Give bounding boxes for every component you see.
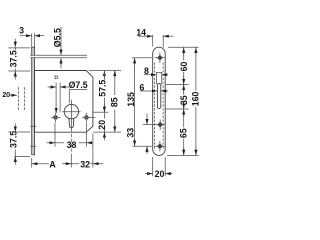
svg-text:33: 33 — [126, 128, 136, 138]
dim 135 — [134, 58, 136, 147]
dim 37.5 lower — [14, 150, 16, 157]
plate screw hole top — [155, 53, 165, 63]
faceplate side-view bar — [32, 47, 35, 155]
plate screw hole middle — [155, 119, 165, 129]
svg-text:Ø5.5: Ø5.5 — [52, 28, 62, 47]
cylinder centerline below body — [70, 134, 72, 152]
dim 3 extension lines — [31, 33, 33, 47]
svg-text:3: 3 — [19, 25, 24, 35]
ext line body top right — [89, 69, 121, 71]
dim 160 — [195, 47, 197, 91]
dim 33 — [146, 114, 148, 125]
svg-text:20: 20 — [155, 169, 165, 179]
ext slot top right — [166, 84, 189, 86]
dim 85 line — [114, 70, 116, 95]
countersunk hole top — [54, 75, 59, 80]
dim 38 ext lines — [54, 123, 56, 147]
dim 14 ext lines — [152, 35, 154, 47]
ext line body bottom right — [93, 131, 121, 133]
hole tick mid-lower on bar — [30, 125, 36, 127]
cylinder h centerline — [62, 111, 80, 113]
svg-text:135: 135 — [126, 92, 136, 107]
dim 38 arrows — [47, 142, 55, 144]
hole tick lower on bar — [30, 145, 36, 147]
faceplate front view — [153, 47, 166, 155]
ext bottom hole left — [133, 145, 152, 147]
dim A ext lines — [31, 158, 33, 168]
bolt slot 6 wide — [157, 84, 160, 109]
upper screw hole lines (Ø5.5) — [31, 56, 35, 58]
svg-text:60: 60 — [179, 62, 189, 72]
dim Ø7.5 extension lines — [55, 83, 57, 113]
svg-text:35: 35 — [179, 95, 189, 105]
euro cylinder slot — [69, 118, 74, 128]
svg-text:14: 14 — [136, 28, 146, 38]
dim 60 — [183, 47, 185, 60]
countersunk hole left — [53, 113, 58, 122]
countersunk hole right — [84, 113, 89, 122]
ext plate top right — [168, 46, 199, 48]
dim 20 plate arrows — [145, 173, 153, 175]
svg-text:37.5: 37.5 — [8, 131, 18, 148]
dim 14 arrows — [138, 35, 153, 37]
cylinder v centerline — [70, 100, 72, 132]
plate screw hole bottom — [155, 141, 165, 151]
dim A arrows — [32, 163, 49, 165]
hidden case lines — [153, 63, 155, 151]
ext line body bottom left — [8, 131, 30, 133]
ext line bar bottom left — [14, 155, 30, 157]
cylinder centerline ext right — [93, 111, 108, 113]
ext top hole left — [132, 57, 152, 59]
holes h centerline — [51, 116, 61, 118]
dim 37.5 upper — [14, 47, 16, 50]
dashed box — [18, 87, 20, 110]
dim 20 right — [103, 112, 105, 118]
dim 3 arrows — [20, 35, 32, 37]
ext plate bottom right — [167, 154, 199, 156]
svg-text:37.5: 37.5 — [8, 50, 18, 67]
ext line body top left — [8, 70, 30, 72]
dim 20 plate width ext lines — [152, 157, 154, 176]
svg-text:38: 38 — [67, 140, 77, 150]
svg-text:Ø7.5: Ø7.5 — [69, 80, 88, 90]
svg-text:57.5: 57.5 — [98, 80, 108, 97]
ext line bar top left — [8, 47, 30, 49]
lock body outline — [35, 71, 93, 133]
svg-text:160: 160 — [190, 92, 200, 107]
svg-text:32: 32 — [80, 159, 90, 169]
dim 57.5 line — [103, 71, 105, 79]
dim Ø5.5 leader arrows — [60, 27, 62, 55]
svg-text:20: 20 — [97, 120, 107, 130]
dim Ø7.5 arrows — [48, 86, 56, 88]
dim 35 — [183, 85, 185, 95]
ext slot bottom right — [166, 108, 189, 110]
latch slot 8 wide — [156, 72, 161, 84]
dim 65 — [183, 109, 185, 127]
svg-text:85: 85 — [110, 97, 120, 107]
ext mid hole left — [143, 124, 155, 126]
svg-text:65: 65 — [179, 128, 189, 138]
svg-text:A: A — [49, 159, 56, 169]
euro cylinder circle — [64, 104, 78, 118]
svg-text:20: 20 — [2, 90, 10, 99]
